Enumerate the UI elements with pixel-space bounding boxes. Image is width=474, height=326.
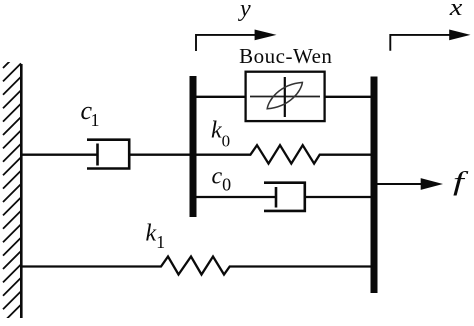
svg-text:x: x [449, 0, 463, 20]
svg-text:y: y [238, 0, 251, 22]
svg-text:Bouc-Wen: Bouc-Wen [239, 44, 332, 68]
